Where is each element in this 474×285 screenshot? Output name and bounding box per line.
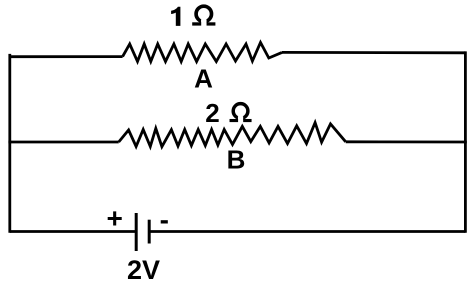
resistor A zigzag (1 ohm) bbox=[123, 43, 282, 62]
svg-text:A: A bbox=[194, 63, 213, 93]
resistor B zigzag (2 ohm) bbox=[119, 123, 346, 147]
wire middle left segment bbox=[10, 141, 119, 144]
wire left vertical lower segment (node mid-left to node bottom-left) bbox=[8, 142, 11, 231]
svg-text:2V: 2V bbox=[127, 255, 160, 285]
wire bottom left segment (to battery + plate) bbox=[10, 230, 136, 233]
battery short plate (negative) bbox=[148, 220, 151, 244]
wire top right segment bbox=[282, 51, 465, 54]
label ohm symbol of resistor A value bbox=[192, 6, 215, 26]
wire left vertical upper segment (node top-left to node mid-left) bbox=[8, 55, 11, 142]
wire bottom right segment (from battery - plate) bbox=[149, 230, 465, 233]
wire right vertical lower segment (node mid-right to node bottom-right) bbox=[464, 142, 467, 231]
svg-text:2: 2 bbox=[205, 98, 219, 128]
wire middle right segment bbox=[346, 140, 466, 143]
svg-text:-: - bbox=[160, 204, 169, 235]
svg-text:B: B bbox=[227, 145, 246, 175]
wire top left segment bbox=[10, 55, 123, 58]
svg-text:+: + bbox=[106, 202, 122, 233]
wire right vertical upper segment (node top-right to node mid-right) bbox=[464, 53, 467, 142]
label ohm symbol of resistor B value bbox=[230, 104, 252, 123]
label 1 (value digit of resistor A) bbox=[171, 7, 180, 26]
battery long plate (positive) bbox=[135, 213, 138, 251]
